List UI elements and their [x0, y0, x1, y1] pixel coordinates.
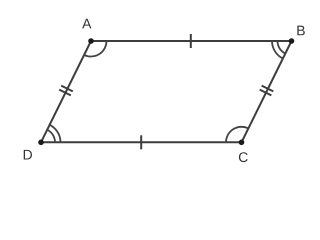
angle arc at C (single) — [226, 127, 248, 143]
side AD — [41, 41, 91, 142]
vertex dot A — [88, 38, 94, 44]
vertex dot C — [239, 140, 245, 146]
double tick on AD — [61, 86, 73, 92]
side BC — [242, 41, 292, 142]
tick on AB — [190, 34, 192, 48]
angle arcs at B (double) — [278, 41, 286, 54]
label B — [297, 26, 304, 36]
label D — [24, 150, 32, 160]
vertex dot D — [38, 140, 44, 146]
tick on DC — [140, 135, 142, 149]
angle arcs at D (double) — [47, 130, 55, 143]
side AB — [91, 40, 292, 42]
label C — [239, 152, 248, 162]
label A — [82, 19, 91, 29]
double tick on BC — [262, 86, 274, 92]
vertex dot B — [289, 38, 295, 44]
angle arc at A (single) — [84, 41, 106, 57]
side DC — [41, 141, 242, 143]
